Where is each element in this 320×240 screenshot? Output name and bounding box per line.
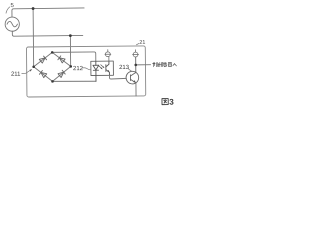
leader for label 213 bbox=[128, 68, 132, 71]
wire AC bottom to bottom rail bbox=[12, 31, 82, 37]
svg-text:21: 21 bbox=[139, 40, 145, 46]
box 21 outer frame bbox=[26, 46, 145, 97]
wire collector up through terminal to top rail bbox=[133, 50, 139, 73]
junction dot bridge bottom vertex bbox=[51, 80, 54, 83]
制 bbox=[153, 62, 158, 66]
leader for label 21 bbox=[136, 43, 139, 45]
diode D3 bottom-left (points to left vertex) bbox=[39, 70, 46, 77]
svg-text:213: 213 bbox=[119, 65, 130, 71]
figure caption 図3 bbox=[162, 99, 168, 105]
junction dot bridge left vertex bbox=[32, 65, 35, 68]
LED inside optocoupler bbox=[93, 61, 99, 81]
light arrow heads bbox=[101, 67, 103, 69]
御 bbox=[158, 62, 162, 66]
AC source 5 bbox=[5, 17, 19, 31]
svg-text:211: 211 bbox=[11, 72, 21, 78]
leader for label 211 bbox=[21, 69, 31, 73]
light arrows bbox=[99, 65, 104, 69]
svg-text:212: 212 bbox=[73, 66, 84, 72]
diode D2 top-right (points to top vertex) bbox=[58, 56, 65, 63]
wire output to control device bbox=[136, 64, 151, 66]
optocoupler 212 box bbox=[91, 61, 114, 75]
置 bbox=[168, 62, 171, 66]
wire vertical from bottom rail to bridge right vertex bbox=[69, 36, 71, 67]
wire AC top to top rail bbox=[12, 8, 84, 17]
svg-text:3: 3 bbox=[169, 98, 174, 107]
svg-text:5: 5 bbox=[10, 3, 14, 9]
wire emitter down to frame bottom bbox=[135, 83, 137, 96]
junction dot bottom rail bbox=[69, 34, 72, 37]
へ bbox=[173, 64, 177, 66]
bridge rectifier 211 diamond wires bbox=[34, 52, 71, 81]
装 bbox=[163, 62, 167, 67]
wire vertical from top rail to bridge left vertex bbox=[32, 9, 35, 67]
junction dot bridge top vertex bbox=[51, 51, 54, 54]
junction dot collector/output node bbox=[134, 64, 137, 67]
text to control device (制御装置へ) bbox=[153, 62, 177, 67]
図 glyph bbox=[162, 99, 168, 105]
emitter arrow of transistor 213 bbox=[133, 80, 136, 83]
wire phototransistor emitter to transistor base bbox=[109, 75, 126, 79]
junction dot top rail bbox=[32, 7, 35, 10]
phototransistor inside optocoupler bbox=[106, 61, 110, 75]
junction dot bridge right vertex bbox=[69, 65, 72, 68]
AC source sine wave bbox=[7, 21, 17, 26]
transistor 213 bbox=[126, 71, 139, 84]
emitter arrow of phototransistor bbox=[107, 70, 109, 72]
diode D1 top-left (points to top vertex) bbox=[39, 56, 46, 63]
phototransistor collector stub + terminal circle bbox=[105, 50, 111, 62]
diode D4 bottom-right (points to right vertex) bbox=[58, 70, 65, 77]
leader for label 5 bbox=[6, 7, 10, 14]
leader for label 212 bbox=[82, 68, 91, 70]
wire bridge top vertex to optocoupler LED bbox=[52, 52, 96, 62]
wire bridge bottom vertex to LED cathode bbox=[53, 80, 97, 83]
